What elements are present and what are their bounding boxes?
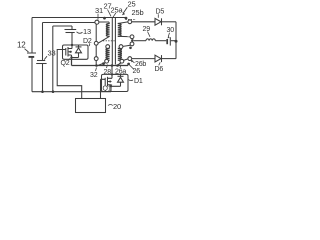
wire: capacitor-33 rail x=42.5: [42, 23, 44, 92]
wire: midpoint bus down to Q1 drain: [111, 63, 121, 74]
label 28: [104, 65, 112, 77]
svg-text:26b: 26b: [135, 61, 146, 68]
transformer winding 25a (upper-left primary): [98, 22, 109, 43]
svg-text:13: 13: [83, 27, 91, 36]
label 25b: [132, 8, 144, 17]
polarity dot (25a): [103, 17, 106, 20]
wire: third rail x=52.8: [52, 26, 54, 92]
label 26b: [131, 60, 147, 68]
diode D1 (clamp inside Q1 cell): [110, 73, 143, 87]
wire: top bus y=17.5 from left rail to transformer: [32, 17, 126, 19]
wire: primary-side terminal strip x=96.2: [95, 24, 97, 65]
transformer winding 26b (lower-right): [118, 45, 128, 65]
label 25a: [111, 5, 124, 17]
transistor Q2 (MOSFET): [61, 45, 73, 67]
terminal (strip lower): [94, 57, 98, 61]
wire: Q1 gate lead down to control box: [101, 79, 106, 98]
junction dots on ground rail: [41, 90, 54, 93]
terminal 31: [95, 6, 103, 24]
svg-text:D6: D6: [155, 66, 164, 73]
wire: second bus y=22.5 from cap33 rail to terminal 31: [43, 22, 95, 24]
battery 12: [17, 41, 36, 57]
polarity dot (26a): [102, 62, 105, 65]
label 27: [104, 2, 112, 17]
svg-text:30: 30: [167, 27, 175, 34]
svg-text:28: 28: [104, 69, 112, 76]
svg-text:D5: D5: [156, 9, 165, 16]
svg-text:25b: 25b: [132, 8, 144, 17]
polarity dot (25b): [125, 17, 128, 20]
wire: Q1 source to ground rail: [110, 86, 112, 91]
terminal circle (secondary output) + lead + LC feed: [123, 41, 146, 49]
svg-text:33: 33: [48, 49, 56, 58]
diode D5: [132, 9, 176, 26]
svg-text:25a: 25a: [111, 5, 124, 14]
terminal circle (25b bottom): [130, 35, 134, 42]
label 25: [122, 0, 136, 15]
wire: bottom ground rail: [32, 91, 111, 93]
transformer core (25/26): [112, 18, 115, 65]
node 32: [90, 64, 98, 79]
label 26a: [115, 65, 126, 76]
diode D6: [132, 55, 176, 73]
capacitor 30: [167, 27, 178, 46]
transistor Q1 (MOSFET): [103, 74, 113, 92]
wire: Q2 source to midpoint bus y=65.5: [72, 58, 129, 66]
transformer winding 25b (upper-right): [118, 22, 130, 37]
terminal circle (25b top, feeds D5): [128, 20, 132, 24]
svg-text:31: 31: [95, 6, 103, 15]
transistor Q2 cell box: [63, 45, 89, 59]
transformer winding 26a (lower-left): [98, 45, 109, 66]
polarity dot (26b): [127, 63, 130, 66]
svg-text:D1: D1: [134, 78, 143, 85]
coupling dash (lower): [103, 40, 115, 42]
wire: left battery rail x=32: [31, 18, 33, 92]
terminal (strip mid): [94, 41, 98, 45]
coupling dash (upper): [126, 18, 137, 20]
svg-text:Q2: Q2: [61, 60, 70, 67]
capacitor 33: [36, 49, 55, 64]
wire: Q2 gate lead down to control box: [57, 50, 81, 99]
diode D2 (clamp inside Q2 cell): [70, 38, 92, 59]
control box 20: [76, 99, 121, 113]
capacitor C13: [65, 27, 91, 45]
wire: y=26 feed to capacitor 13: [53, 26, 72, 29]
svg-text:12: 12: [17, 41, 26, 50]
wire: right output rail x=176: [175, 22, 177, 59]
svg-text:32: 32: [90, 72, 98, 79]
label 26: [130, 65, 141, 75]
svg-text:29: 29: [143, 26, 151, 33]
svg-text:D2: D2: [83, 38, 92, 45]
inductor 29: [143, 26, 167, 41]
svg-text:20: 20: [113, 102, 121, 111]
transistor Q1 cell box: [102, 74, 129, 91]
terminal circle (26b bottom, feeds D6): [128, 57, 132, 61]
